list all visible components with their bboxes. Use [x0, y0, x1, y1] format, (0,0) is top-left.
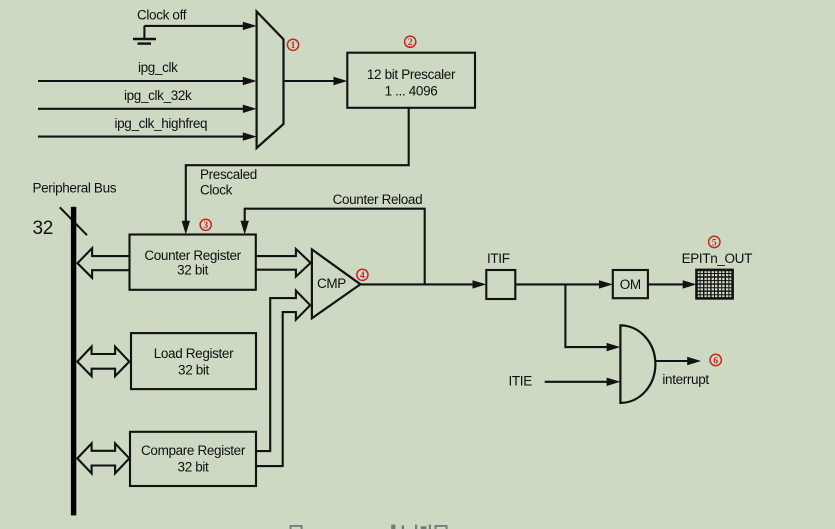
svg-text:3: 3	[203, 221, 208, 231]
svg-text:2: 2	[408, 38, 413, 48]
bus width slash	[60, 207, 87, 235]
svg-text:Clock off: Clock off	[137, 8, 187, 23]
callout 6	[710, 354, 721, 366]
svg-text:Peripheral Bus: Peripheral Bus	[33, 181, 117, 196]
svg-text:Counter Register: Counter Register	[144, 248, 241, 263]
svg-text:32 bit: 32 bit	[178, 362, 210, 377]
hollow bent arrow compare register to CMP	[256, 291, 310, 467]
svg-text:1: 1	[291, 41, 296, 51]
compare register box	[130, 432, 256, 486]
svg-text:32 bit: 32 bit	[177, 262, 209, 277]
svg-text:Prescaled: Prescaled	[200, 167, 257, 182]
hollow arrow counter register to CMP	[256, 249, 311, 277]
prescaler box	[347, 53, 475, 108]
svg-text:Load Register: Load Register	[154, 346, 234, 361]
wire prescaler to counter register (prescaled clock)	[182, 108, 409, 235]
load register box	[131, 333, 256, 389]
svg-text:interrupt: interrupt	[662, 372, 709, 387]
svg-text:32 bit: 32 bit	[178, 460, 210, 475]
OM box	[613, 270, 648, 298]
hollow arrow counter register to bus	[78, 248, 130, 278]
svg-text:CMP: CMP	[317, 276, 346, 291]
counter register box	[130, 235, 256, 290]
wire ipg_clk_highfreq to mux	[38, 132, 257, 140]
wire CMP to ITIF	[360, 280, 486, 288]
wire ITIE to AND gate	[545, 378, 621, 386]
wire AND gate output (interrupt)	[655, 357, 701, 365]
svg-text:ipg_clk_highfreq: ipg_clk_highfreq	[115, 116, 208, 131]
svg-text:EPITn_OUT: EPITn_OUT	[682, 251, 752, 266]
svg-text:5: 5	[712, 238, 717, 248]
wire OM to pad	[648, 280, 697, 288]
mux clock multiplexer	[257, 12, 284, 149]
caption fragment (clipped figure caption)	[290, 525, 448, 529]
svg-text:6: 6	[713, 356, 718, 366]
callout 2	[405, 36, 416, 48]
AND gate	[620, 325, 655, 403]
wire junction down to AND gate	[565, 284, 620, 351]
svg-text:ipg_clk_32k: ipg_clk_32k	[124, 88, 192, 103]
wire counter reload	[241, 209, 425, 285]
output pad EPITn_OUT (hatched)	[697, 270, 733, 299]
wire ipg_clk_32k to mux	[38, 105, 257, 113]
label Prescaled Clock	[200, 167, 257, 198]
peripheral bus bar	[71, 207, 76, 516]
ground	[133, 26, 156, 44]
callout 3	[200, 219, 211, 231]
svg-text:Clock: Clock	[200, 183, 233, 198]
wire ipg_clk to mux	[38, 77, 257, 85]
wire ITIF to OM	[515, 280, 613, 288]
svg-text:ITIE: ITIE	[509, 374, 533, 389]
wire mux to prescaler	[284, 77, 348, 85]
svg-text:Compare Register: Compare Register	[141, 443, 246, 458]
svg-text:Counter Reload: Counter Reload	[333, 192, 423, 207]
svg-text:12 bit Prescaler: 12 bit Prescaler	[367, 67, 456, 82]
hollow double arrow compare register / bus	[77, 443, 129, 473]
comparator CMP	[312, 249, 361, 318]
svg-text:OM: OM	[620, 277, 641, 292]
svg-text:ITIF: ITIF	[487, 251, 510, 266]
wire clock off to mux	[144, 22, 256, 30]
svg-text:ipg_clk: ipg_clk	[138, 60, 178, 75]
callout 1	[287, 39, 298, 51]
callout 5	[709, 236, 720, 248]
callout 4	[357, 269, 368, 281]
ITIF box	[486, 270, 515, 299]
svg-text:32: 32	[33, 218, 53, 239]
hollow double arrow load register / bus	[77, 347, 129, 377]
svg-text:1 ... 4096: 1 ... 4096	[385, 84, 438, 99]
svg-text:4: 4	[360, 271, 365, 281]
